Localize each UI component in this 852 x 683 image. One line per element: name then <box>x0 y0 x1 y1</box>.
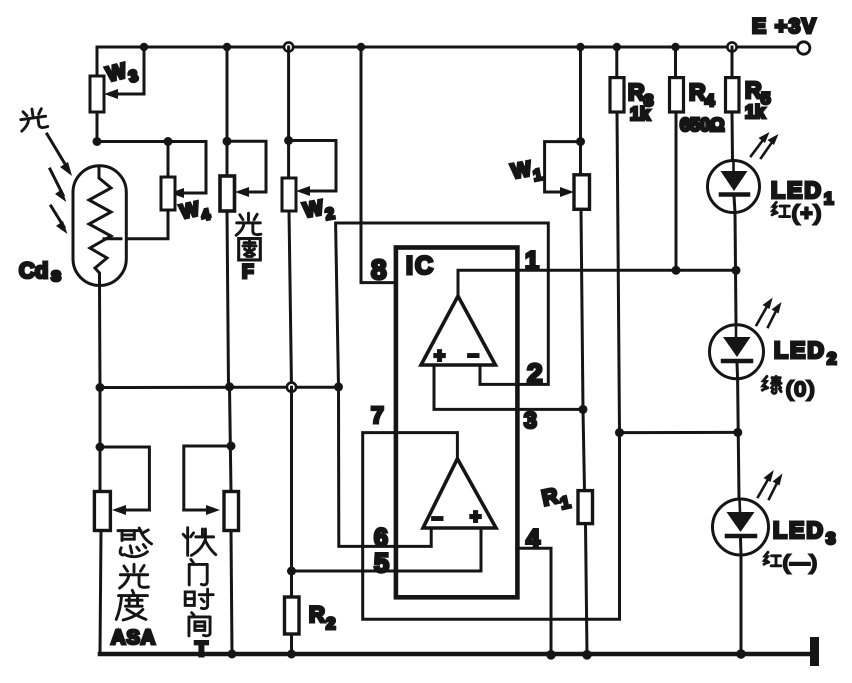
wire bus under W3 <box>97 142 206 199</box>
svg-text:–: – <box>468 345 479 366</box>
node junction R3 op2out <box>615 428 624 437</box>
wire op1 output pin 1 <box>458 270 736 296</box>
label Cds <box>19 258 61 285</box>
svg-text:1: 1 <box>824 189 833 208</box>
node junction W1 wiper <box>576 137 585 146</box>
supply terminal <box>798 42 810 54</box>
resistor R3 <box>610 47 624 433</box>
IC body <box>396 248 518 598</box>
wire outer loop pin2 <box>336 223 549 387</box>
svg-text:3: 3 <box>826 529 835 548</box>
svg-text:T: T <box>195 638 208 661</box>
node junction R5 rail <box>727 42 736 51</box>
svg-text:IC: IC <box>406 252 435 280</box>
node junction rail R2 <box>287 650 296 659</box>
node junction F-pot rail <box>223 43 231 51</box>
wire Cds bottom to mid bus <box>98 285 102 387</box>
label 快门时间T <box>183 528 216 661</box>
resistor R2 <box>285 597 300 654</box>
wire LED1 to LED2 <box>735 213 736 324</box>
potentiometer W1 <box>545 47 590 409</box>
node junction mid bus F-line <box>225 382 234 391</box>
node junction F-pot wiper <box>223 137 232 146</box>
label pin 2 <box>527 358 543 389</box>
wire op1 plus to pin 3 <box>434 365 583 409</box>
svg-text:+: + <box>434 346 445 367</box>
wire op2 output pin 7 loop <box>363 433 620 620</box>
node junction mid bus left <box>96 383 105 392</box>
label E +3V <box>752 15 817 38</box>
potentiometer W3 <box>90 47 144 142</box>
svg-text:4: 4 <box>705 91 715 110</box>
node junction W3 loop on rail <box>140 43 148 51</box>
label R3 1k <box>628 79 653 124</box>
svg-text:LED: LED <box>773 517 825 543</box>
LED2 light arrows <box>757 298 782 327</box>
node junction W1 rail <box>576 43 584 51</box>
wire op2 output to LED chain <box>620 431 738 434</box>
svg-text:E +3V: E +3V <box>752 15 817 38</box>
wire top supply rail <box>97 47 797 76</box>
label pin 1 <box>525 247 539 275</box>
svg-text:+: + <box>470 507 481 528</box>
svg-text:2: 2 <box>326 614 335 633</box>
label pin 6 <box>374 524 388 552</box>
node junction W2 wiper <box>284 136 293 145</box>
svg-text:ASA: ASA <box>111 627 156 649</box>
node junction ASA loop <box>96 443 105 452</box>
svg-text:2: 2 <box>527 358 543 389</box>
svg-text:3: 3 <box>524 407 537 433</box>
node junction rail R1 <box>582 650 592 660</box>
label light 光 <box>19 107 48 131</box>
svg-text:8: 8 <box>371 254 387 285</box>
potentiometer W2 <box>282 47 336 388</box>
label 感光度ASA <box>111 528 156 649</box>
label pin 8 <box>371 254 387 285</box>
label pin 4 <box>526 525 540 553</box>
svg-text:1k: 1k <box>745 102 766 122</box>
node junction R4 pin1 <box>672 266 681 275</box>
node junction W4 top <box>164 137 173 146</box>
potentiometer W4 <box>121 142 175 239</box>
wire LED2 to LED3 <box>738 379 739 499</box>
node junction rail pin4 <box>546 650 556 660</box>
LED3 light arrows <box>758 470 783 499</box>
potentiometer aperture F <box>220 47 266 387</box>
label pin 3 <box>524 407 537 433</box>
node junction pin1 LED chain <box>732 266 741 275</box>
svg-text:LED: LED <box>771 177 823 203</box>
wire W2 line to R2 <box>290 387 293 597</box>
svg-text:W: W <box>510 157 534 183</box>
label 光圈F <box>236 213 261 283</box>
label W3 <box>104 57 140 91</box>
photoresistor Cds <box>73 166 126 286</box>
bottom ground rail <box>100 652 810 657</box>
LED LED2 <box>710 325 764 379</box>
light arrows into Cds <box>47 134 72 234</box>
svg-text:4: 4 <box>526 525 540 553</box>
potentiometer sensitivity ASA <box>94 388 149 655</box>
wire pin 5 <box>292 528 482 571</box>
node junction pin3 W1 R1 <box>579 405 588 414</box>
node junction W2 rail <box>284 42 293 51</box>
node junction shutter loop <box>227 442 236 451</box>
LED LED1 <box>708 161 760 213</box>
label LED2 green zero <box>762 337 836 401</box>
LED LED3 <box>713 499 769 555</box>
label LED3 red minus <box>764 517 835 574</box>
wire pin 8 supply <box>361 47 396 283</box>
resistor R4 <box>670 47 684 270</box>
ground bar <box>810 637 819 666</box>
svg-text:(+): (+) <box>792 203 823 225</box>
svg-text:F: F <box>242 262 254 283</box>
svg-text:(—): (—) <box>783 553 818 574</box>
svg-text:R: R <box>689 79 706 105</box>
wire pin 4 <box>517 548 551 655</box>
node junction rail LED3 <box>736 649 746 659</box>
potentiometer shutter time T <box>184 387 239 654</box>
svg-text:1: 1 <box>525 247 539 275</box>
svg-text:650Ω: 650Ω <box>680 115 724 135</box>
node junction mid bus outer rect <box>334 382 343 391</box>
resistor R5 <box>726 47 740 161</box>
node junction rail shutter pot <box>228 650 237 659</box>
svg-text:W: W <box>301 196 325 222</box>
svg-text:(0): (0) <box>786 379 816 401</box>
op-amp U1a <box>421 296 495 367</box>
label W4 <box>178 196 212 228</box>
node junction pin8 drop on rail <box>357 43 365 51</box>
svg-text:–: – <box>432 508 443 529</box>
wire LED3 to bottom rail <box>740 555 743 654</box>
wire mid bus <box>100 386 339 389</box>
label R4 650 ohm <box>680 79 724 135</box>
label R1 <box>540 481 572 517</box>
svg-text:1k: 1k <box>630 104 651 124</box>
svg-text:Cd: Cd <box>19 258 48 283</box>
svg-text:R: R <box>309 602 325 627</box>
svg-text:R: R <box>745 77 762 103</box>
svg-text:R: R <box>628 79 645 105</box>
node junction R4 rail <box>671 43 679 51</box>
node junction mid bus W2-line <box>287 383 296 392</box>
node junction op2 out to LED chain <box>733 428 742 437</box>
resistor R1 <box>578 409 593 654</box>
label IC <box>406 252 435 280</box>
node junction Cds top <box>93 137 102 146</box>
label W2 <box>301 195 335 228</box>
svg-text:7: 7 <box>371 402 384 428</box>
node junction pin5 R2 <box>287 567 296 576</box>
LED1 light arrows <box>751 132 779 158</box>
label R2 <box>309 602 335 633</box>
label LED1 red plus <box>771 177 833 225</box>
label pin 7 <box>371 402 384 428</box>
label W1 <box>510 156 544 189</box>
svg-text:2: 2 <box>827 349 836 368</box>
svg-text:LED: LED <box>774 337 826 363</box>
label pin 5 <box>374 548 389 578</box>
label R5 1k <box>745 77 770 122</box>
svg-text:s: s <box>51 265 61 285</box>
svg-text:5: 5 <box>374 548 389 578</box>
op-amp U1b <box>423 459 496 529</box>
wire pin 6 <box>339 387 432 547</box>
node junction R3 rail <box>613 43 621 51</box>
